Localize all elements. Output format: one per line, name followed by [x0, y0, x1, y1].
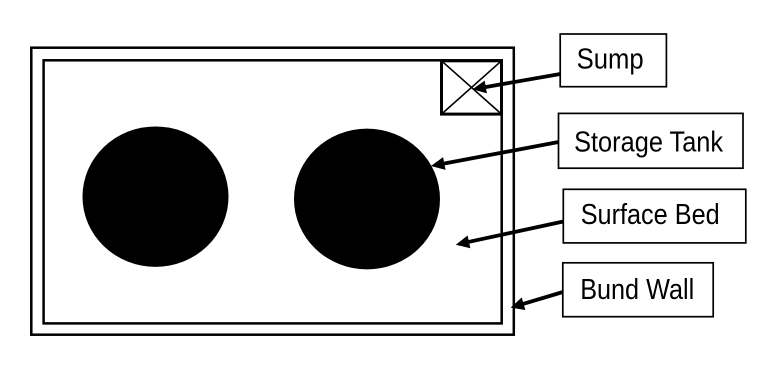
svg-text:Surface Bed: Surface Bed [581, 199, 720, 231]
svg-text:Bund Wall: Bund Wall [580, 274, 694, 306]
svg-text:Sump: Sump [577, 44, 644, 76]
svg-text:Storage Tank: Storage Tank [574, 126, 724, 158]
